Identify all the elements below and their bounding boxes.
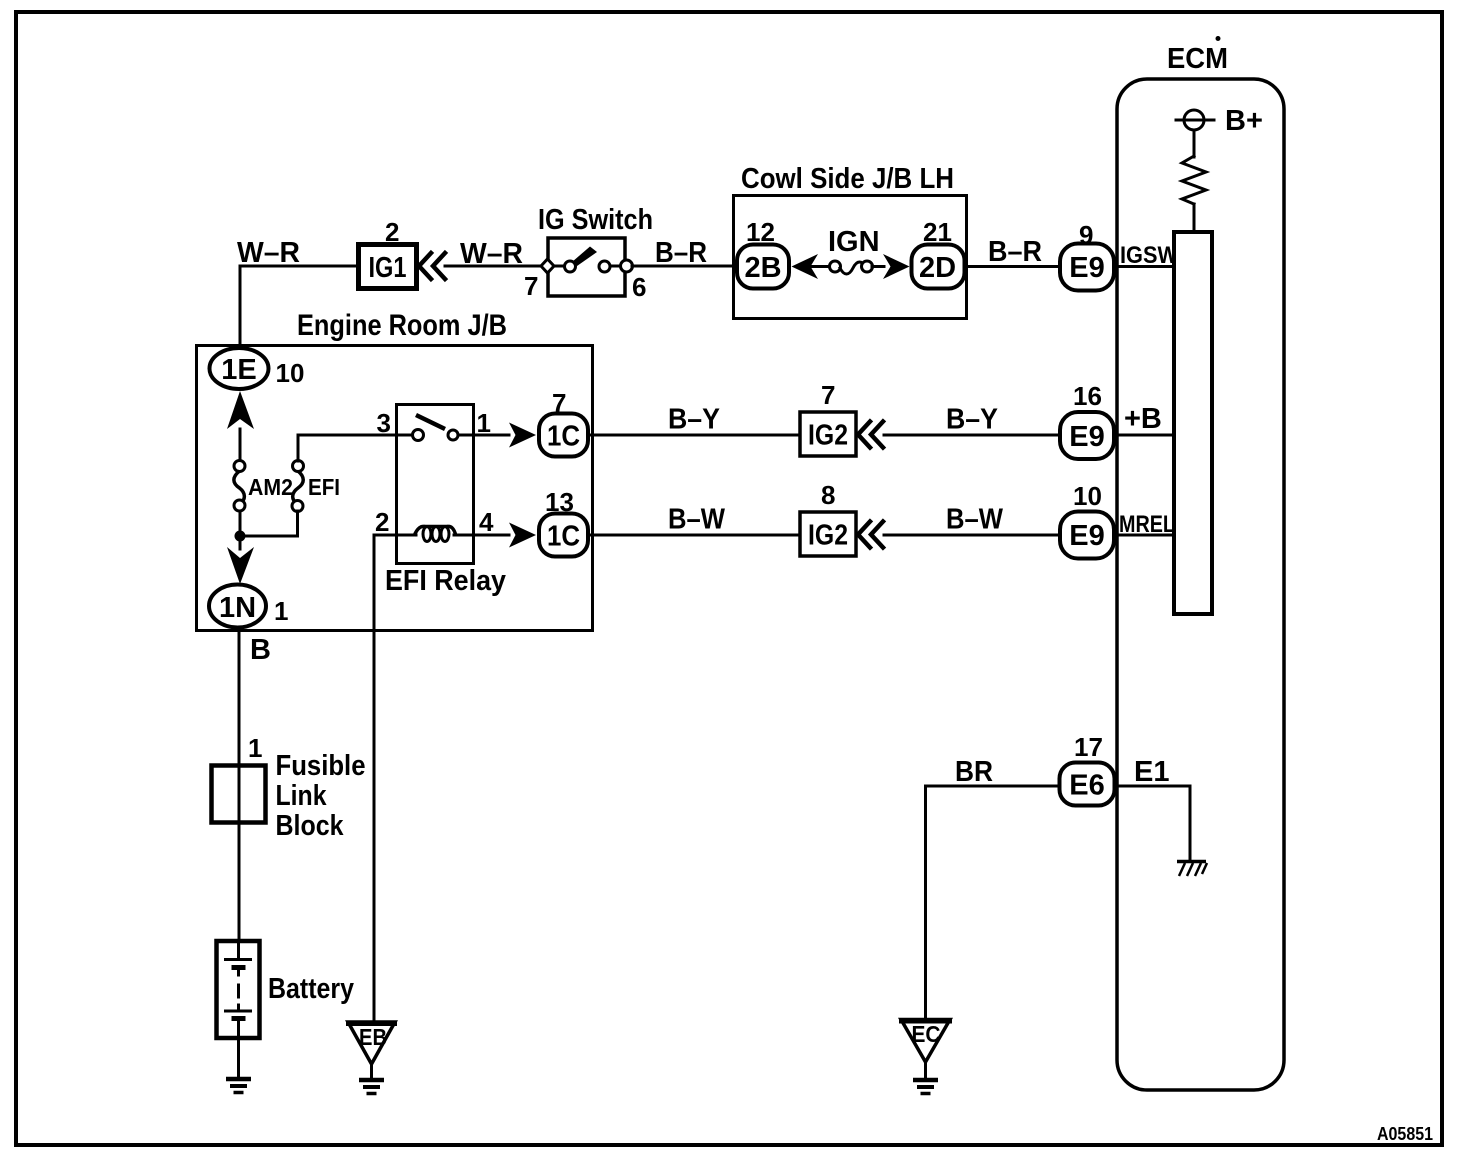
svg-text:IG Switch: IG Switch bbox=[538, 204, 653, 236]
junction block: Cowl Side J/B LH box bbox=[734, 196, 967, 319]
svg-text:B–W: B–W bbox=[946, 504, 1004, 536]
switch contact left bbox=[565, 261, 576, 272]
resistor (ECM internal pull-up) bbox=[1182, 156, 1206, 204]
wire coil to relay pin 4 out bbox=[454, 534, 509, 537]
wire EFI fuse up and to relay pin 3 bbox=[298, 435, 412, 461]
svg-text:7: 7 bbox=[524, 271, 538, 301]
connector mating chevrons at IG2 row3 bbox=[858, 522, 883, 548]
connector E9 pin 10 bbox=[1060, 512, 1114, 559]
svg-text:4: 4 bbox=[479, 507, 494, 537]
connector 2B bbox=[737, 245, 789, 289]
svg-text:B–R: B–R bbox=[988, 236, 1042, 268]
arrow up toward 1E bbox=[227, 391, 254, 429]
connector mating chevrons at IG1 bbox=[419, 253, 445, 279]
fuse EFI bbox=[292, 461, 304, 512]
svg-text:2: 2 bbox=[375, 507, 389, 537]
svg-text:2D: 2D bbox=[919, 252, 956, 284]
small dot above ECM title bbox=[1216, 36, 1221, 41]
arrow down toward 1N bbox=[227, 547, 254, 584]
wire IG1 to IG Switch (W-R) bbox=[445, 265, 542, 268]
ground EB triangle bbox=[346, 1022, 397, 1064]
svg-text:IG2: IG2 bbox=[808, 520, 848, 552]
connector 1C pin 13 bbox=[539, 514, 588, 557]
chassis ground at E1 bbox=[1177, 862, 1207, 877]
battery BAT1 bbox=[217, 941, 260, 1038]
ECM internal bus bar bbox=[1174, 232, 1212, 614]
wire arrow to fuse AM2 bbox=[239, 429, 242, 461]
svg-text:IG1: IG1 bbox=[369, 252, 407, 284]
wire E9 to ECM bus (MREL) bbox=[1114, 534, 1174, 537]
connector 2D bbox=[912, 245, 965, 289]
svg-text:BR: BR bbox=[955, 756, 993, 788]
wire EFI fuse to junction node bbox=[240, 511, 298, 536]
svg-text:16: 16 bbox=[1073, 381, 1102, 411]
connector 1E bbox=[210, 348, 269, 389]
relay contact right bbox=[448, 430, 458, 440]
wire relay pin 2 into coil bbox=[374, 534, 416, 537]
connector mating chevrons at IG2 row2 bbox=[858, 422, 883, 448]
wire relay contact to pin 1 out bbox=[458, 434, 509, 437]
svg-text:1C: 1C bbox=[547, 521, 580, 553]
svg-text:10: 10 bbox=[276, 358, 305, 388]
relay: EFI Relay box bbox=[397, 405, 474, 564]
svg-text:AM2: AM2 bbox=[248, 474, 293, 500]
svg-text:B–Y: B–Y bbox=[668, 404, 720, 436]
switch lever bbox=[572, 247, 597, 267]
B+ terminal crossbar bbox=[1176, 119, 1214, 122]
arrow into 1C row3 (pointing right) bbox=[509, 523, 536, 548]
svg-text:IG2: IG2 bbox=[808, 420, 848, 452]
relay coil bbox=[414, 526, 456, 541]
connector E9 pin 16 bbox=[1060, 412, 1114, 459]
arrow into 2B (pointing left) bbox=[792, 254, 819, 279]
svg-text:8: 8 bbox=[821, 480, 835, 510]
svg-text:6: 6 bbox=[632, 272, 646, 302]
junction block: Engine Room J/B box bbox=[197, 346, 593, 631]
wire IG Switch to Cowl Side J/B (B-R) bbox=[632, 265, 732, 268]
wire relay pin 2 down to ground EB bbox=[373, 535, 376, 1022]
wire 1C to IG2 (B-Y) bbox=[590, 434, 798, 437]
connector IG2 (row 3) bbox=[800, 512, 856, 556]
svg-text:E9: E9 bbox=[1069, 421, 1104, 453]
wire IG2 to E9 (B-Y) bbox=[884, 434, 1058, 437]
wire EB triangle to ground bbox=[370, 1064, 373, 1078]
svg-text:W–R: W–R bbox=[460, 238, 523, 270]
svg-text:EFI: EFI bbox=[308, 474, 340, 500]
arrow into 1C row2 (pointing right) bbox=[509, 423, 536, 448]
wire arrow to fuse IGN bbox=[810, 265, 830, 268]
B+ terminal circle bbox=[1184, 110, 1204, 130]
svg-text:E6: E6 bbox=[1069, 770, 1104, 802]
wire resistor to ECM bus bbox=[1193, 204, 1196, 232]
junction node dot bbox=[235, 531, 246, 542]
svg-text:Fusible: Fusible bbox=[276, 750, 366, 782]
svg-text:1: 1 bbox=[274, 596, 288, 626]
fuse IGN bbox=[830, 261, 873, 274]
ground EC triangle bbox=[899, 1020, 952, 1063]
svg-text:IGN: IGN bbox=[828, 226, 880, 258]
svg-text:B–Y: B–Y bbox=[946, 404, 998, 436]
svg-text:Link: Link bbox=[276, 780, 328, 812]
svg-text:Engine Room J/B: Engine Room J/B bbox=[297, 309, 507, 342]
svg-text:2B: 2B bbox=[744, 252, 781, 284]
wire IG2 to E9 (B-W) bbox=[884, 534, 1058, 537]
svg-text:B: B bbox=[250, 634, 271, 666]
wire AM2 fuse to junction node bbox=[239, 511, 242, 536]
fusible link block bbox=[212, 766, 266, 823]
svg-text:17: 17 bbox=[1074, 732, 1103, 762]
svg-text:EB: EB bbox=[359, 1024, 387, 1050]
svg-text:Block: Block bbox=[276, 810, 345, 842]
ground below battery bbox=[226, 1079, 251, 1093]
fuse AM2 bbox=[234, 461, 245, 512]
svg-text:1N: 1N bbox=[219, 592, 256, 624]
ground symbol below EB bbox=[359, 1080, 384, 1094]
connector IG2 (row 2) bbox=[800, 412, 856, 456]
svg-text:Battery: Battery bbox=[268, 973, 354, 1005]
svg-text:7: 7 bbox=[821, 380, 835, 410]
svg-text:+B: +B bbox=[1124, 403, 1162, 435]
wire 1N down to fusible link block bbox=[238, 630, 241, 764]
svg-text:E9: E9 bbox=[1069, 252, 1104, 284]
wire battery to ground bbox=[237, 1038, 240, 1077]
svg-text:10: 10 bbox=[1073, 481, 1102, 511]
wire junction node down bbox=[239, 536, 242, 549]
relay contact left bbox=[413, 430, 424, 441]
wire E1 from E6 to internal ground bbox=[1114, 786, 1190, 860]
wire E9 to ECM internal bus (IGSW) bbox=[1114, 265, 1174, 268]
wire through fusible link block bbox=[238, 764, 241, 940]
ground symbol below EC bbox=[913, 1080, 938, 1094]
svg-text:IGSW: IGSW bbox=[1120, 242, 1178, 269]
wire 2D to connector E9 (B-R) bbox=[966, 265, 1058, 268]
switch pin 6 terminal bbox=[621, 260, 633, 272]
wire B+ to resistor bbox=[1193, 130, 1196, 157]
svg-text:B–W: B–W bbox=[668, 504, 726, 536]
svg-text:B–R: B–R bbox=[655, 237, 707, 269]
svg-text:ECM: ECM bbox=[1167, 43, 1228, 75]
switch: IG Switch body bbox=[548, 238, 625, 296]
ECM block outline bbox=[1117, 79, 1284, 1090]
wire EC triangle to ground bbox=[924, 1062, 927, 1078]
connector IG1 bbox=[359, 245, 417, 289]
svg-text:E1: E1 bbox=[1134, 756, 1169, 788]
wire 1C to IG2 (B-W) bbox=[590, 534, 798, 537]
svg-text:1C: 1C bbox=[547, 421, 580, 453]
svg-text:B+: B+ bbox=[1225, 105, 1263, 137]
wire E9 to ECM bus (+B) bbox=[1114, 434, 1174, 437]
relay contact lever bbox=[416, 415, 445, 429]
connector 1C pin 7 bbox=[539, 414, 588, 457]
connector E6 pin 17 bbox=[1060, 763, 1115, 806]
svg-text:Cowl Side J/B LH: Cowl Side J/B LH bbox=[741, 163, 954, 195]
svg-text:1E: 1E bbox=[221, 354, 256, 386]
svg-text:EFI Relay: EFI Relay bbox=[385, 565, 506, 597]
switch contact right bbox=[599, 261, 610, 272]
connector E9 pin 9 bbox=[1060, 244, 1114, 291]
svg-text:E9: E9 bbox=[1069, 520, 1104, 552]
wire BR from EC ground up to connector E6 bbox=[926, 786, 1058, 1019]
label Fusible Link Block bbox=[276, 750, 366, 842]
wire W-R from 1E junction block up and right to connector IG1 bbox=[240, 266, 356, 348]
arrow into 2D (pointing right) bbox=[883, 254, 910, 279]
switch pin 7 terminal (diamond) bbox=[541, 259, 554, 273]
svg-text:W–R: W–R bbox=[237, 237, 300, 269]
svg-text:EC: EC bbox=[912, 1021, 941, 1047]
svg-text:3: 3 bbox=[377, 408, 391, 438]
svg-text:1: 1 bbox=[248, 733, 262, 763]
connector 1N bbox=[209, 585, 266, 628]
svg-text:A05851: A05851 bbox=[1377, 1124, 1433, 1144]
wire fuse to arrow bbox=[872, 265, 884, 268]
